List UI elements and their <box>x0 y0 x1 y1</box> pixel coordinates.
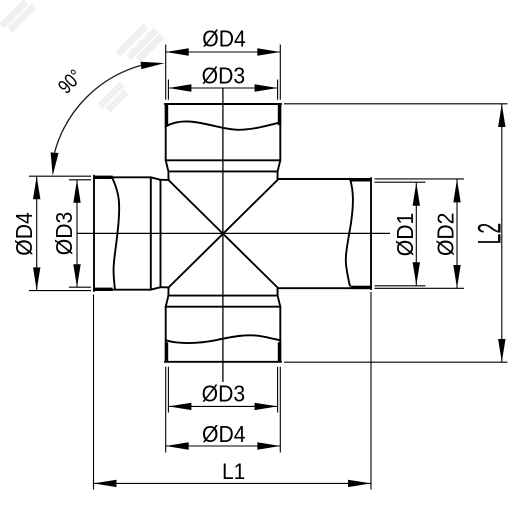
watermark hatch blob C <box>100 84 126 110</box>
dim line OD4 left <box>36 176 38 290</box>
vertical centerline <box>222 88 224 382</box>
left pipe bottom edge <box>94 289 151 291</box>
left pipe socket line <box>150 177 152 289</box>
top pipe wavy break line <box>166 121 281 129</box>
top pipe collar left <box>167 171 169 180</box>
arrow OD3 left top <box>73 180 80 203</box>
top pipe opening edge <box>165 103 281 105</box>
left pipe collar bottom <box>161 286 170 288</box>
arrow OD4 bottom left <box>166 442 189 449</box>
arrow OD3 top right <box>255 84 278 91</box>
dim line OD4 top <box>166 51 281 53</box>
90 degree arc <box>55 65 142 152</box>
arrow OD4 bottom right <box>257 442 280 449</box>
arrow OD3 left bottom <box>73 264 80 287</box>
body diagonal TR-BL <box>169 180 278 288</box>
rim bar right pipe bottom <box>351 286 372 289</box>
svg-text:ØD4: ØD4 <box>202 421 245 447</box>
bottom pipe inner socket line <box>168 295 277 297</box>
svg-text:ØD4: ØD4 <box>11 212 37 255</box>
ext line right D2 bottom <box>375 287 465 289</box>
rim bar left pipe top <box>93 176 113 179</box>
body diagonal TL-BR <box>169 180 278 288</box>
arrow OD2 top <box>453 179 460 202</box>
bottom pipe taper right <box>278 296 281 307</box>
dim line OD1 right <box>415 183 417 286</box>
left pipe taper bottom <box>151 287 161 290</box>
ext line top D4 right <box>279 45 281 100</box>
rim bar top pipe right <box>278 103 281 125</box>
arrow OD3 top left <box>168 84 191 91</box>
top pipe taper right <box>278 160 281 171</box>
rim bar right pipe top <box>351 178 372 181</box>
ext line left D4 bottom <box>29 290 91 292</box>
arrow OD2 bottom <box>453 265 460 288</box>
arrow OD3 bottom left <box>168 403 191 410</box>
dim line L2 <box>501 104 503 362</box>
ext line bottom D4 left <box>165 367 167 453</box>
right pipe wavy break line <box>346 179 353 286</box>
top pipe right edge <box>279 104 281 160</box>
ext line top D4 left <box>165 45 167 100</box>
dim line OD3 left <box>76 180 78 287</box>
ext line L1 right <box>370 292 372 490</box>
bottom pipe opening edge <box>165 361 281 363</box>
dim line OD3 top <box>168 87 277 89</box>
dim line L1 <box>94 482 372 484</box>
arrow L1 right <box>348 480 371 487</box>
ext line bottom D3 right <box>277 367 279 413</box>
svg-text:ØD1: ØD1 <box>392 213 418 256</box>
arrow OD1 top <box>413 183 420 206</box>
bottom pipe collar right <box>277 288 279 296</box>
arrow OD4 left bottom <box>33 267 40 290</box>
ext line left D3 top <box>69 179 91 181</box>
watermark hatch blob A <box>2 2 34 30</box>
ext line L2 bottom <box>284 361 508 363</box>
right pipe top edge <box>278 178 371 180</box>
rim bar left pipe bottom <box>93 288 113 291</box>
bottom pipe taper left <box>166 296 169 307</box>
ext line top D3 left <box>167 80 169 100</box>
bottom pipe collar left <box>167 288 169 296</box>
arrow arc top <box>141 62 165 69</box>
top pipe inner socket line <box>168 170 277 172</box>
dim line OD4 bottom <box>166 445 281 447</box>
dim line OD2 right <box>456 179 458 288</box>
ext line right D1 bottom <box>375 285 426 287</box>
left pipe opening edge <box>93 176 95 291</box>
ext line bottom D3 left <box>167 367 169 413</box>
svg-text:ØD3: ØD3 <box>51 212 77 255</box>
svg-text:ØD3: ØD3 <box>202 62 245 88</box>
arrow OD4 top right <box>257 48 280 55</box>
horizontal centerline <box>77 232 390 234</box>
bottom pipe socket line <box>166 306 281 308</box>
right pipe end edge <box>370 178 372 289</box>
arrow OD4 top left <box>166 48 189 55</box>
svg-text:L1: L1 <box>222 458 245 484</box>
arrow OD4 left top <box>33 176 40 199</box>
ext line L1 left <box>93 295 95 490</box>
arrow OD3 bottom right <box>255 403 278 410</box>
arrow L2 bottom <box>498 339 505 362</box>
top pipe left edge <box>165 104 167 160</box>
svg-text:L2: L2 <box>471 223 507 245</box>
svg-text:ØD2: ØD2 <box>433 213 459 256</box>
ext line left D3 bottom <box>69 286 91 288</box>
top pipe socket line <box>166 159 281 161</box>
arrow arc bottom <box>51 152 59 175</box>
ext line bottom D4 right <box>279 367 281 453</box>
arrow L1 left <box>94 480 117 487</box>
ext line right D1 top <box>375 181 426 183</box>
rim bar bottom pipe right <box>278 342 281 362</box>
bottom pipe left edge <box>165 307 167 362</box>
left pipe top edge <box>94 176 151 178</box>
dim line OD3 bottom <box>168 405 277 407</box>
ext line left D4 top <box>29 175 91 177</box>
ext line right D2 top <box>375 178 465 180</box>
ext line L2 top <box>284 103 508 105</box>
arrow OD1 bottom <box>413 262 420 285</box>
left pipe inner socket line <box>160 180 162 287</box>
watermark hatch blob B <box>118 26 162 60</box>
svg-text:ØD4: ØD4 <box>202 26 245 52</box>
arrow L2 top <box>498 104 505 127</box>
ext line top D3 right <box>277 80 279 100</box>
left pipe wavy break line <box>113 179 120 290</box>
svg-text:ØD3: ØD3 <box>202 381 245 407</box>
rim bar top pipe left <box>165 103 168 125</box>
top pipe taper left <box>166 160 169 171</box>
left pipe taper top <box>151 177 161 180</box>
top pipe collar right <box>277 171 279 180</box>
bottom pipe right edge <box>279 307 281 362</box>
right pipe bottom edge <box>278 287 371 289</box>
bottom pipe wavy break line <box>166 335 281 343</box>
rim bar bottom pipe left <box>165 342 168 362</box>
left pipe collar top <box>161 179 170 181</box>
